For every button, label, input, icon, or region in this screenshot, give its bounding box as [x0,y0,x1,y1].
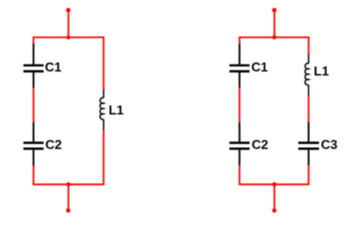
wire: bottom output stub circuit 1 [67,184,69,210]
node: top junction dot circuit 1 [66,35,70,39]
wire: left rail segment between C1 and C2 circuit 2 [239,87,241,122]
svg-text:C2: C2 [45,137,62,152]
node: bottom junction dot circuit 1 [66,182,70,186]
wire: top rail of circuit 1 (left corner, top, right corner down to L1) [34,37,104,90]
wire: top input stub circuit 2 [273,10,275,37]
capacitor C1 (circuit 2): top lead, two plates, bottom lead [229,44,249,88]
svg-text:L1: L1 [109,103,124,118]
capacitor C2 (circuit 1): top lead, two plates, bottom lead [23,122,43,165]
svg-text:C1: C1 [251,60,268,75]
wire: bottom rail of circuit 2 (left corner, bottom, right corner) [240,165,309,184]
node: bottom junction dot circuit 2 [272,182,276,186]
capacitor C2 (circuit 2): top lead, two plates, bottom lead [229,122,249,165]
wire: top rail of circuit 2 (left corner, top, right corner down to L1) [240,37,309,55]
wire: left rail segment between C1 and C2 circuit 1 [33,87,35,122]
wire: top input stub circuit 1 [67,10,69,37]
node: bottom terminal dot circuit 1 [66,208,70,212]
capacitor C1 (circuit 1): top lead, two plates, bottom lead [23,44,43,88]
node: top terminal dot circuit 1 [66,8,70,12]
inductor L1 (circuit 2): top lead, 4-loop coil, bottom lead [305,55,309,96]
svg-text:C2: C2 [252,137,269,152]
capacitor C3 (circuit 2): top lead, two plates, bottom lead [298,122,319,165]
wire: right rail segment between L1 and C3 circuit 2 [308,95,310,123]
svg-text:C3: C3 [321,137,338,152]
node: bottom terminal dot circuit 2 [272,208,276,212]
wire: bottom output stub circuit 2 [273,184,275,210]
inductor L1 (circuit 1): top lead, 4-loop coil, bottom lead [100,90,104,130]
wire: bottom rail of circuit 1 (left corner, bottom, right corner up to L1) [34,130,104,185]
svg-text:C1: C1 [45,60,62,75]
svg-text:L1: L1 [314,64,329,79]
node: top terminal dot circuit 2 [272,8,276,12]
node: top junction dot circuit 2 [272,35,276,39]
